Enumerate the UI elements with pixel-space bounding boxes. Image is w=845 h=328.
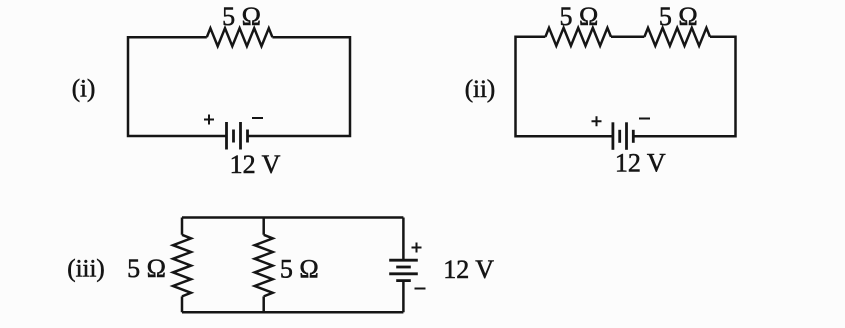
svg-text:12 V: 12 V	[615, 149, 666, 178]
svg-text:5 Ω: 5 Ω	[659, 2, 698, 31]
svg-text:5 Ω: 5 Ω	[222, 2, 261, 31]
svg-text:(i): (i)	[72, 76, 96, 103]
svg-text:(iii): (iii)	[67, 255, 105, 282]
svg-text:5 Ω: 5 Ω	[280, 255, 319, 284]
svg-text:(ii): (ii)	[465, 76, 496, 103]
svg-text:12 V: 12 V	[230, 150, 281, 179]
svg-text:12 V: 12 V	[443, 255, 494, 284]
svg-text:5 Ω: 5 Ω	[559, 2, 598, 31]
svg-text:5 Ω: 5 Ω	[127, 254, 166, 283]
